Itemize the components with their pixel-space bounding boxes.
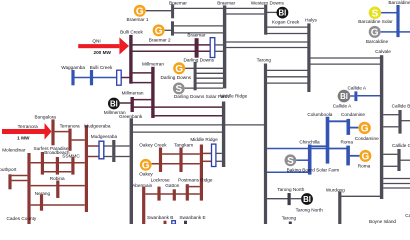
svg-text:Lockrose: Lockrose [151, 177, 170, 182]
svg-text:S: S [287, 156, 294, 167]
bus Tangkam [179, 148, 182, 173]
svg-text:Roma: Roma [358, 164, 371, 169]
bus Abermain [142, 187, 145, 224]
wire Molendinar to Mudgeeraba via Robina [31, 185, 85, 187]
bus Oakey Creek [159, 148, 162, 173]
bus Robina [56, 181, 59, 199]
wire Oakey Creek to Middle Ridge upper [162, 153, 200, 155]
svg-text:Barcaldine: Barcaldine [366, 39, 389, 44]
battery BI Tarong North [301, 193, 313, 205]
bus Bulk Creek maroon [129, 35, 132, 84]
svg-text:Callide A: Callide A [348, 86, 367, 91]
svg-text:Postmans Ridge: Postmans Ridge [178, 177, 213, 182]
bus Wurdong [338, 192, 341, 225]
svg-text:Tarong North: Tarong North [277, 187, 304, 192]
wire Tarong to Tarong North bar [267, 198, 288, 200]
wire Braemar330 to Halys 2 [226, 47, 308, 49]
wire Mudgeeraba red to transformer 2 [88, 156, 99, 158]
wire Middle Ridge transformer to gray bus 1 [216, 152, 222, 154]
bus Western Downs [264, 5, 267, 35]
bus Darling Downs [194, 62, 197, 90]
svg-text:Middle Ridge: Middle Ridge [190, 137, 218, 142]
svg-text:G: G [142, 160, 150, 171]
svg-text:Calvale: Calvale [375, 49, 391, 54]
wire Tarong North bar to BI [291, 198, 302, 200]
bus Middle Ridge red [200, 145, 203, 201]
svg-text:Wurdong: Wurdong [326, 187, 345, 192]
svg-text:Western Downs: Western Downs [251, 0, 285, 5]
wire Calvale to Callide C 2 [383, 165, 397, 167]
transformer Mudgeeraba [99, 141, 104, 159]
wire Darling Downs S rung [185, 87, 223, 89]
svg-text:Darling Downs: Darling Downs [183, 57, 214, 62]
bus Broadbeach [56, 157, 59, 175]
wire Braemar1 unit link [146, 10, 173, 12]
wire Columboola to Condamine [329, 120, 347, 122]
svg-text:Baking Board Solar Farm: Baking Board Solar Farm [287, 168, 340, 173]
bus Callide C [397, 149, 400, 171]
svg-text:1 MW: 1 MW [17, 135, 30, 140]
wire Callide A BI to bar [350, 95, 354, 97]
wire Gold Coast main tie [31, 162, 85, 164]
bus SSMMC [71, 157, 74, 175]
wire Tarong to Halys 1 [267, 69, 308, 71]
wire Tarong to Halys 2 [267, 76, 308, 78]
svg-text:G: G [155, 26, 163, 37]
svg-text:Callide B: Callide B [392, 104, 410, 109]
svg-text:Braemar 2: Braemar 2 [149, 38, 171, 43]
battery BI Callide A [338, 90, 351, 103]
wire Tarong to Chinchilla blue upper [267, 148, 308, 150]
svg-text:G: G [371, 28, 379, 39]
bus Braemar 2 unit [171, 21, 174, 35]
wire Western Downs to Halys 2 [267, 33, 308, 35]
interconnector arrow QNI [78, 37, 129, 54]
wire Chinchilla to Columboola at 148.5 [311, 148, 326, 150]
bus Mudgeeraba red [85, 125, 88, 212]
bus Millmerran main [151, 67, 154, 118]
svg-text:Chinchilla: Chinchilla [299, 140, 320, 145]
wire Mudgeeraba gray to Greenbank 1 [115, 145, 129, 147]
wire Callide C east stub [401, 159, 410, 161]
bus Gatton [173, 189, 176, 200]
bus Tarong [264, 64, 267, 225]
bus Braemar maroon [195, 38, 199, 58]
svg-text:Braemar: Braemar [169, 0, 187, 5]
wire Darling Downs G rung [185, 67, 223, 69]
wire transformer to Mudgeeraba gray 1 [104, 145, 112, 147]
svg-text:QNI: QNI [92, 39, 100, 44]
wire Western Downs to Kogan Creek BI [267, 11, 277, 13]
svg-text:Bulli Creek: Bulli Creek [120, 30, 143, 35]
generator G Braemar 1 [134, 5, 146, 18]
wire Tarong to Chinchilla blue lower [267, 171, 308, 173]
bus Braemar 1 unit [171, 4, 174, 18]
wire Postmans to Middle Ridge upper [189, 186, 200, 188]
svg-text:BI: BI [340, 92, 348, 101]
wire Bulk Creek to Braemar maroon 2 [132, 50, 210, 52]
svg-text:Waggamba: Waggamba [61, 65, 85, 70]
svg-text:Tarong: Tarong [282, 215, 297, 220]
svg-text:BI: BI [303, 195, 311, 204]
svg-text:G: G [136, 6, 144, 17]
bus Barcaldine blue [396, 5, 399, 37]
bus Swanbank E stub [184, 221, 187, 224]
generator G Darling Downs [173, 62, 185, 75]
bus Mudgeeraba gray [112, 140, 115, 162]
svg-text:S: S [372, 8, 379, 19]
svg-text:Columboola: Columboola [307, 112, 332, 117]
wire Millmerran to Middle Ridge 2 [155, 115, 223, 117]
bus Surfers Paradise [41, 152, 44, 175]
bus Chinchilla [308, 145, 312, 175]
wire Middle Ridge to Tarong [225, 124, 264, 126]
wire Molendinar to Mudgeeraba via Nerang [31, 204, 85, 206]
svg-text:Terranora: Terranora [18, 124, 38, 129]
svg-text:G: G [361, 124, 369, 135]
transformer Braemar [210, 38, 215, 58]
svg-text:Roma: Roma [340, 139, 353, 144]
generator G Condamine [358, 122, 370, 135]
wire Greenbank to Middle Ridge (continues to Tarong) [133, 124, 223, 126]
wire Calvale east 3 [383, 187, 410, 189]
wire Oakey G to Middle Ridge lower [152, 163, 200, 165]
wire Mudgeeraba red to transformer 1 [88, 145, 99, 147]
svg-text:Cades County: Cades County [7, 216, 37, 221]
transformer Bulli Creek / Bulk Creek [117, 70, 122, 85]
generator G Oakey [140, 159, 152, 171]
wire Southport to Molendinar 2 [12, 180, 28, 182]
generator G Braemar 2 [153, 24, 165, 37]
bus Postmans Ridge [186, 184, 189, 200]
wire Calvale to Callide B 1 [383, 114, 398, 116]
generator G Barcaldine (gray) [369, 26, 381, 39]
wire Abermain to Middle Ridge main [145, 193, 200, 195]
svg-text:Molendinar: Molendinar [2, 148, 26, 153]
wire Bulk Creek to Braemar maroon 1 [132, 44, 210, 46]
wire Roma bus to G [350, 155, 360, 157]
bus Roma [346, 146, 350, 166]
bus Bulli Creek [90, 70, 93, 85]
generator S Baking Board [285, 154, 297, 166]
bus Lockrose [157, 187, 160, 201]
bus Bungalora [51, 119, 54, 145]
bus Calvale [380, 55, 383, 199]
bus Columboola [326, 117, 330, 164]
svg-text:Halys: Halys [305, 17, 317, 22]
wire Surfers to SSMMC lower tie [44, 171, 71, 173]
bus Braemar 330kV [223, 5, 226, 88]
interconnector arrow Terranora [2, 123, 52, 140]
wire Western Downs to Halys 1 [267, 26, 308, 28]
svg-text:Robina: Robina [50, 176, 65, 181]
svg-text:Oakey: Oakey [139, 172, 153, 177]
svg-text:Oakey Creek: Oakey Creek [139, 143, 167, 148]
wire Barcaldine bus to east edge [400, 31, 410, 33]
bus Waggamba [71, 70, 74, 85]
svg-text:BI: BI [110, 99, 118, 108]
svg-text:Bulli Creek: Bulli Creek [90, 65, 113, 70]
svg-text:Darling Downs: Darling Downs [161, 75, 192, 80]
wire Calvale east 1 [383, 178, 410, 180]
bus Millmerran small [131, 97, 134, 112]
svg-text:Tarong North: Tarong North [296, 208, 323, 213]
svg-text:Kogan Creek: Kogan Creek [272, 19, 300, 24]
bus Tarong station stub [289, 222, 292, 225]
svg-text:G: G [362, 152, 370, 163]
wire Braemar transformer to Braemar330 2 [215, 50, 223, 52]
wire Tarong to Halys 3 [267, 82, 308, 84]
svg-text:Swanbank B: Swanbank B [147, 215, 173, 220]
wire Terranora to Mudgeeraba [72, 139, 85, 141]
bus Swanbank B stub [164, 221, 167, 224]
svg-text:BI: BI [278, 8, 286, 17]
wire Bungalora to Terranora [55, 131, 69, 133]
svg-text:Middle Ridge: Middle Ridge [220, 94, 248, 99]
svg-text:Millmerran: Millmerran [142, 62, 164, 67]
svg-text:Tangkam: Tangkam [174, 143, 193, 148]
wire Middle Ridge red to transformer 1 [203, 152, 211, 154]
svg-text:200 MW: 200 MW [93, 50, 111, 55]
wire Greenbank to Middle Ridge 2 [133, 131, 223, 133]
wire Barcaldine Solar to bus [381, 12, 396, 14]
bus Terranora [68, 129, 71, 151]
battery BI Kogan Creek [277, 7, 289, 19]
svg-text:Braemar: Braemar [217, 0, 235, 5]
wire Barcaldine G to bus [381, 31, 397, 33]
wire Southport to Molendinar 1 [12, 175, 28, 177]
svg-text:Tarong: Tarong [257, 57, 272, 62]
wire Wurdong to Calvale [341, 195, 380, 197]
generator S Barcaldine Solar (yellow) [369, 7, 381, 20]
wire transformer to Mudgeeraba gray 2 [104, 156, 112, 158]
svg-text:Greenbank: Greenbank [119, 114, 143, 119]
wire Bulli Creek 330kV line (blue) [74, 77, 117, 79]
bus Halys [307, 23, 310, 92]
svg-text:Mudgeeraba: Mudgeeraba [91, 134, 118, 139]
svg-text:Braemar 1: Braemar 1 [127, 17, 149, 22]
wire transformer to Bulk Creek bus [122, 77, 130, 79]
wire Baking Board to Chinchilla [296, 159, 308, 161]
wire Callide A to Calvale [357, 95, 380, 97]
svg-text:Gatton: Gatton [165, 183, 179, 188]
wire Braemar2 unit link [165, 29, 171, 31]
svg-text:Condamine: Condamine [355, 136, 379, 141]
bus Condamine [347, 119, 351, 135]
wire Middle Ridge transformer to gray bus 2 [216, 160, 222, 162]
battery BI Millmerran [108, 98, 120, 110]
wire Darling Downs rung 2 [197, 72, 224, 74]
transformer Middle Ridge [212, 144, 216, 166]
wire Millmerran small to main 1 [134, 99, 152, 101]
wire Calvale to Callide B 2 [383, 126, 398, 128]
bus Greenbank [130, 118, 133, 224]
wire Calvale east 2 [383, 183, 410, 185]
bus Callide A blue bar [354, 91, 357, 101]
bus Middle Ridge gray [222, 102, 225, 168]
generator S Darling Downs Solar [173, 83, 185, 96]
wire Braemar330 to Western Downs second [226, 13, 264, 15]
svg-text:Millmerran: Millmerran [122, 90, 144, 95]
wire Millmerran BI link [120, 102, 131, 104]
wire Millmerran small to Middle Ridge long [134, 106, 223, 108]
svg-text:Mudgeeraba: Mudgeeraba [84, 124, 111, 129]
bus Molendinar [27, 153, 30, 224]
wire Braemar2bus to Braemar330 upper [174, 25, 223, 27]
wire Callide B east stub [402, 120, 410, 122]
svg-text:Braemar: Braemar [187, 33, 205, 38]
wire Condamine bus to G [350, 127, 359, 129]
wire Darling Downs rung 3 [197, 77, 224, 79]
wire Braemar330 to Halys 1 [226, 41, 308, 43]
wire Chinchilla to Columboola [311, 145, 326, 147]
wire Calvale to Callide C 1 [383, 153, 397, 155]
svg-text:Calliope R: Calliope R [405, 213, 410, 218]
wire Darling Downs rung 4 [197, 82, 224, 84]
svg-text:Callide A: Callide A [333, 103, 352, 108]
svg-text:Bungalora: Bungalora [35, 114, 57, 119]
svg-text:Southport: Southport [0, 167, 17, 172]
bus Southport [8, 174, 11, 189]
svg-text:Condamine: Condamine [341, 112, 365, 117]
wire Bulk Creek to Millmerran 1 [132, 72, 152, 74]
svg-text:Boyne Island: Boyne Island [369, 219, 396, 224]
svg-text:Callide C: Callide C [392, 143, 410, 148]
wire Braemar transformer to Braemar330 1 [215, 44, 223, 46]
wire Middle Ridge red to transformer 2 [203, 160, 211, 162]
wire Braemar1bus to Braemar330 to Western Downs [174, 7, 264, 9]
svg-text:Barcaldine Solar: Barcaldine Solar [358, 19, 393, 24]
bus Nerang [40, 194, 43, 210]
bus Callide B [398, 110, 401, 134]
wire Halys to Calvale 1 [311, 57, 381, 59]
transformer Swanbank [172, 221, 176, 224]
svg-text:Terranora: Terranora [60, 124, 80, 129]
wire Halys to Calvale 2 [311, 63, 381, 65]
generator G Roma [359, 150, 371, 163]
wire Braemar2bus to Braemar330 lower [174, 32, 223, 34]
svg-text:G: G [175, 64, 183, 75]
wire Columboola to Roma [329, 148, 347, 150]
bus Tarong North [288, 193, 291, 205]
wire Bulk Creek to Millmerran 2 [132, 82, 152, 84]
wire Mudgeeraba gray to Greenbank 2 [115, 156, 129, 158]
svg-text:Barcaldine: Barcaldine [388, 0, 410, 5]
svg-text:Swanbank E: Swanbank E [179, 215, 205, 220]
